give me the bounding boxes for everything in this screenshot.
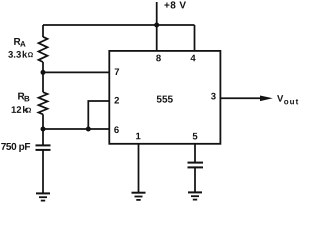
ground symbol under C2 [188,191,202,193]
node: V+ junction dot [154,23,159,28]
svg-text:1: 1 [135,131,141,142]
+8V supply lead [156,2,158,25]
wire: pin 8 to V+ rail [156,25,158,51]
wire: pin 1 to ground [138,144,140,193]
wire: rail down to RA [42,25,44,37]
capacitor C2 plates [188,162,204,164]
wire: node A down to RB [42,72,44,92]
wire: RA to node A [42,62,44,73]
svg-text:4: 4 [190,53,196,64]
svg-text:6: 6 [114,125,119,136]
wire: pin 6 to node B [43,128,109,130]
svg-text:555: 555 [156,95,173,106]
wire: RB to node B [42,114,44,129]
svg-text:A: A [20,40,26,49]
svg-text:3: 3 [211,91,216,102]
resistor RB zigzag [39,92,48,114]
wire: pin 5 to C2 [194,144,196,163]
ground symbol pin 1 [132,192,146,194]
wire: pin 2 branch [88,101,109,129]
wire: pin 7 to node A [43,71,109,73]
wire: pin 3 output [220,97,262,99]
svg-text:B: B [24,94,30,103]
svg-text:out: out [284,97,299,106]
node B junction dot [41,127,46,132]
svg-text:7: 7 [114,67,119,78]
svg-text:5: 5 [192,131,198,142]
svg-text:Ω: Ω [26,108,32,115]
svg-text:+8 V: +8 V [164,0,186,11]
svg-text:Ω: Ω [28,52,34,59]
ground symbol under C1 [36,192,50,194]
node A junction dot [41,70,46,75]
svg-text:750 pF: 750 pF [1,142,31,153]
wire: C2 to ground [194,167,196,192]
node: pin2/pin6 junction dot [86,127,91,132]
wire: C1 to ground [42,150,44,193]
wire: V+ rail [43,24,195,26]
svg-text:2: 2 [114,95,119,106]
svg-text:8: 8 [156,53,161,64]
svg-text:3.3 k: 3.3 k [8,50,28,61]
wire: pin 4 to V+ rail [194,25,196,51]
wire: node B down to C1 [42,129,44,146]
555 IC box U1 [109,51,220,144]
resistor RA zigzag [39,37,48,62]
Vout arrowhead [260,96,273,102]
capacitor C1 750pF plates [36,144,51,146]
